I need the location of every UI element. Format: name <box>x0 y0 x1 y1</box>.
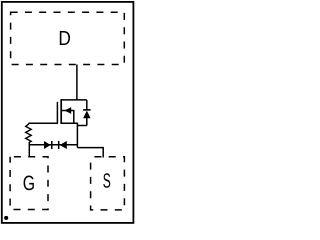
wire body diode anode to source <box>77 125 86 127</box>
wire gate horizontal <box>29 122 59 124</box>
diode D3 (body diode) <box>83 110 91 118</box>
diode D2 (ESD protection, anode at source) <box>59 141 67 149</box>
terminal box G <box>10 157 48 210</box>
wire body diode anode down <box>86 118 88 126</box>
wire body diode cathode to drain <box>86 100 88 110</box>
wire source vertical <box>76 123 78 148</box>
resistor R1 (gate resistor) <box>26 123 32 143</box>
wire gate-source protection rail <box>29 144 77 146</box>
transistor Q1 (N-channel MOSFET) <box>57 99 77 124</box>
terminal box S <box>91 157 125 210</box>
node G label <box>24 176 34 191</box>
wire drain node horizontal <box>61 99 87 101</box>
node S label <box>103 173 110 188</box>
terminal box D <box>11 12 125 64</box>
wire drain vertical from D box <box>76 65 78 101</box>
wire gate down to G box <box>28 143 30 158</box>
diode D1 (ESD protection, anode at gate) <box>44 141 52 149</box>
node D label <box>60 31 70 45</box>
wire source to S box <box>77 148 103 158</box>
